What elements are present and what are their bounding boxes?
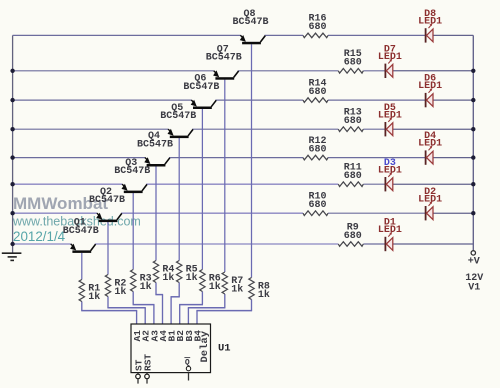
svg-text:680: 680 bbox=[308, 144, 326, 155]
svg-text:LED1: LED1 bbox=[418, 194, 442, 205]
svg-text:V1: V1 bbox=[468, 283, 480, 294]
svg-text:680: 680 bbox=[344, 58, 362, 69]
svg-text:1k: 1k bbox=[209, 281, 221, 293]
svg-text:RST: RST bbox=[143, 354, 154, 371]
svg-text:BC547B: BC547B bbox=[89, 195, 125, 206]
svg-text:BC547B: BC547B bbox=[206, 53, 242, 64]
svg-text:680: 680 bbox=[344, 116, 362, 127]
svg-text:680: 680 bbox=[308, 200, 326, 211]
svg-text:1k: 1k bbox=[186, 272, 198, 284]
svg-text:1k: 1k bbox=[88, 291, 100, 303]
svg-text:BC547B: BC547B bbox=[232, 17, 268, 28]
svg-text:U1: U1 bbox=[218, 343, 231, 355]
svg-text:680: 680 bbox=[344, 231, 362, 242]
svg-text:680: 680 bbox=[308, 87, 326, 98]
svg-text:2012/1/4: 2012/1/4 bbox=[13, 229, 66, 244]
svg-text:1k: 1k bbox=[231, 283, 243, 295]
svg-text:LED1: LED1 bbox=[418, 17, 442, 28]
svg-text:BC547B: BC547B bbox=[114, 166, 150, 177]
svg-text:LED1: LED1 bbox=[378, 165, 402, 176]
svg-text:BC547B: BC547B bbox=[160, 111, 196, 122]
svg-text:BC547B: BC547B bbox=[183, 82, 219, 93]
svg-text:1k: 1k bbox=[140, 281, 152, 293]
svg-text:LED1: LED1 bbox=[378, 52, 402, 63]
svg-text:Delay: Delay bbox=[199, 330, 211, 362]
svg-text:LED1: LED1 bbox=[378, 110, 402, 121]
svg-text:BC547B: BC547B bbox=[63, 226, 99, 237]
svg-text:BC547B: BC547B bbox=[137, 139, 173, 150]
svg-text:680: 680 bbox=[344, 171, 362, 182]
svg-text:1k: 1k bbox=[162, 272, 174, 284]
svg-text:LED1: LED1 bbox=[418, 139, 442, 150]
svg-text:LED1: LED1 bbox=[418, 81, 442, 92]
svg-text:1k: 1k bbox=[114, 286, 126, 298]
svg-text:LED1: LED1 bbox=[378, 225, 402, 236]
svg-text:680: 680 bbox=[308, 22, 326, 33]
svg-text:+V: +V bbox=[468, 257, 480, 268]
svg-text:1k: 1k bbox=[258, 289, 270, 301]
